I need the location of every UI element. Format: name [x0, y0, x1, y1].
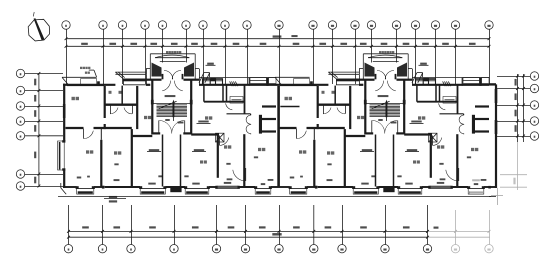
- left west bay window: [58, 140, 66, 171]
- unit: small bottom opening: [102, 186, 105, 189]
- building unit 2 (translated copy): [275, 51, 489, 194]
- unit: stair north wall and entry doors: [146, 80, 199, 91]
- unit: entrance ramp hatch: [230, 81, 238, 86]
- unit: mid corridor wall left: [66, 128, 153, 139]
- faint right lower dims: [500, 142, 527, 190]
- unit: center flush window: [215, 186, 240, 189]
- top wall right-end stub: [489, 83, 496, 85]
- unit: lower partition V5: [430, 135, 432, 178]
- unit: lower partition V6: [243, 134, 245, 186]
- bottom axis bubbles: [64, 245, 431, 253]
- unit: mid corridor wall right: [191, 133, 219, 135]
- unit: bottom bay window A: [76, 186, 96, 194]
- unit: dining walls y106.5/y119/y131.5: [475, 107, 489, 132]
- unit: kitchen counter line: [227, 113, 251, 115]
- unit: room and window labels: [72, 91, 274, 185]
- unit: flue block: [429, 133, 438, 142]
- unit: stair break line: [372, 101, 390, 108]
- unit: stair south wall and exit doors: [152, 120, 191, 133]
- unit: door arc into V5 room: [220, 136, 229, 146]
- unit: canopy level note: [419, 63, 429, 66]
- unit: top window boxes W3: [249, 78, 276, 86]
- unit: bathroom south wall + doors: [105, 105, 138, 114]
- unit: stair south wall and exit doors: [365, 120, 404, 133]
- unit: eave line above right windows: [412, 77, 489, 79]
- unit: side porch box: [412, 73, 423, 83]
- unit: entrance threshold block: [170, 187, 181, 192]
- southwest corner chamfer: [61, 183, 66, 194]
- unit: mid corridor wall right: [404, 133, 432, 135]
- right end wall: [488, 84, 497, 196]
- unit: under-stair partitions: [163, 135, 181, 187]
- unit: small rooms right of stair: [417, 85, 458, 114]
- unit: left interior wall V2: [317, 86, 319, 129]
- unit2 bedroom closet wall: [280, 106, 299, 108]
- unit: arched pantry bumps: [459, 114, 475, 134]
- unit: stair treads: [157, 105, 188, 117]
- unit: bottom bay window C: [184, 186, 210, 194]
- unit: entrance canopy: [150, 51, 195, 79]
- bottom dimension line overall: [67, 227, 438, 239]
- unit: stair landing line: [153, 102, 190, 104]
- unit: canopy level note: [206, 63, 216, 66]
- unit: lower partition V7: [131, 129, 133, 186]
- unit: left interior wall V2: [104, 86, 106, 129]
- unit: bath tub: [443, 97, 456, 104]
- unit: small bottom opening: [315, 186, 318, 189]
- unit: bottom bay window B: [352, 186, 380, 194]
- unit: lower partition V7: [344, 129, 346, 186]
- building unit 1: [62, 51, 276, 194]
- party wall between units: [277, 86, 280, 187]
- right axis bubbles and stems: [497, 72, 539, 140]
- unit: stair break line: [159, 101, 177, 108]
- unit: entrance threshold block: [383, 187, 394, 192]
- unit: flue block: [216, 133, 225, 142]
- unit: bathroom partition V2b: [121, 86, 123, 105]
- top axis bubbles and grid stems: [62, 21, 493, 84]
- unit: under-stair partitions: [376, 135, 394, 187]
- unit: hall wall V4: [349, 86, 351, 129]
- unit: small rooms right of stair: [204, 85, 245, 114]
- unit: stair side walls: [364, 80, 406, 135]
- left end outer wall: [63, 84, 66, 188]
- unit: room and window labels: [285, 91, 487, 185]
- unit: bottom wall segments: [276, 186, 489, 188]
- faint gray label and wall extension bottom right: [472, 179, 503, 205]
- drip line along bottom: [58, 196, 491, 198]
- unit: bottom bay window A: [289, 186, 309, 194]
- unit: bedroom bay window top-left W1: [62, 77, 104, 86]
- unit: stair up arrow: [385, 100, 388, 121]
- unit: bottom bay window C: [397, 186, 423, 194]
- unit: bottom bay window D: [254, 186, 272, 194]
- faint bottom-right extension dims: [428, 210, 494, 253]
- unit: top main wall: [276, 69, 489, 85]
- unit: living bay window top B1: [328, 72, 359, 85]
- unit: mid corridor wall left: [279, 128, 366, 139]
- unit: bathroom south wall + doors: [318, 105, 351, 114]
- unit: hall wall V4: [136, 86, 138, 129]
- unit: lower partition V5: [217, 135, 219, 178]
- unit: stair up arrow: [172, 100, 175, 121]
- unit: lower partition V6: [456, 134, 458, 186]
- unit: living bay window top B1: [115, 72, 146, 85]
- unit: stair side walls: [151, 80, 193, 135]
- unit: bottom bay window B: [139, 186, 167, 194]
- unit: small top windows W2 pair: [203, 78, 223, 85]
- bottom axis stems: [69, 205, 428, 244]
- unit: canopy double door: [162, 71, 184, 80]
- unit: top window boxes W3: [462, 78, 489, 86]
- left vertical dimension line: [34, 72, 40, 187]
- bedroom bay leader note: [80, 67, 97, 77]
- unit: bathroom partition V2b: [334, 86, 336, 105]
- unit: stair handrail bar: [386, 103, 388, 117]
- top dimension line detail: [65, 43, 491, 48]
- unit: dining walls y106.5/y119/y131.5: [262, 107, 276, 132]
- unit: side porch box: [199, 73, 210, 83]
- unit: lower partition V7b: [313, 128, 315, 187]
- top dimension line overall: [65, 35, 491, 40]
- unit: lower partition V7b: [100, 128, 102, 187]
- unit: stair labels: [378, 95, 397, 123]
- unit: eave line above right windows: [199, 77, 276, 79]
- unit: stair handrail bar: [173, 103, 175, 117]
- unit: entrance ramp hatch: [443, 81, 451, 86]
- unit: bedroom bay window top-left W1: [275, 77, 317, 86]
- bottom dimension line detail: [67, 226, 429, 232]
- unit: small top windows W2 pair: [416, 78, 436, 85]
- unit: bottom wall segments: [63, 186, 276, 188]
- unit: balcony door arc: [233, 168, 246, 181]
- level mark below plan: [104, 196, 126, 203]
- unit: bottom bay window D: [467, 186, 485, 194]
- unit: kitchen counter line: [440, 113, 464, 115]
- unit: canopy double door: [375, 71, 397, 80]
- unit: stair labels: [165, 95, 184, 123]
- right vertical dimension lines: [515, 74, 525, 142]
- unit: top main wall: [63, 69, 276, 85]
- unit: entrance canopy: [363, 51, 408, 79]
- unit: center flush window: [428, 186, 453, 189]
- unit: arched pantry bumps: [246, 114, 262, 134]
- unit: bath tub: [230, 97, 243, 104]
- unit: stair landing line: [366, 102, 403, 104]
- unit: stair north wall and entry doors: [359, 80, 412, 91]
- gray override for last bay band: [470, 191, 484, 194]
- left axis bubbles and stems: [16, 69, 63, 190]
- north arrow: [28, 12, 49, 41]
- unit: door arc into V5 room: [433, 136, 442, 146]
- unit: balcony door arc: [446, 168, 459, 181]
- unit: stair treads: [370, 105, 401, 117]
